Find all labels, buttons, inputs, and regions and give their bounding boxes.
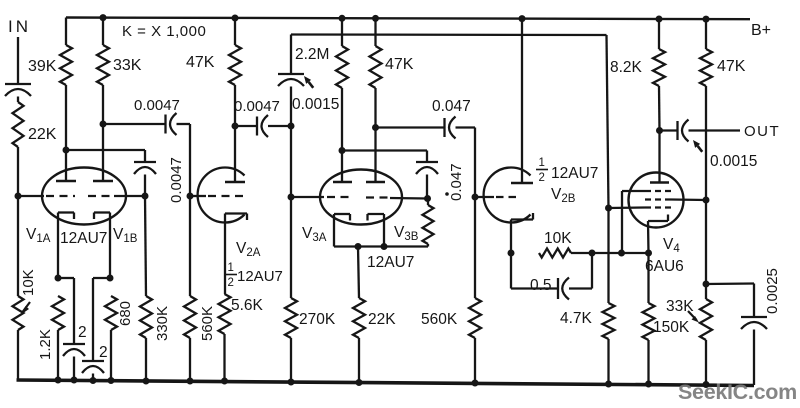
svg-text:47K: 47K [717, 58, 746, 75]
svg-text:1: 1 [539, 157, 545, 169]
svg-text:560K: 560K [199, 306, 216, 341]
svg-text:0.0047: 0.0047 [234, 98, 280, 115]
svg-text:V2A: V2A [236, 240, 261, 259]
svg-text:2.2M: 2.2M [295, 46, 329, 63]
svg-text:12AU7: 12AU7 [237, 268, 283, 285]
svg-text:22K: 22K [28, 126, 57, 143]
svg-text:10K: 10K [544, 230, 572, 247]
svg-text:5.6K: 5.6K [231, 297, 264, 314]
svg-text:K = X 1,000: K = X 1,000 [122, 23, 206, 40]
svg-text:47K: 47K [186, 54, 215, 71]
svg-text:10K: 10K [20, 269, 37, 296]
svg-text:V4: V4 [663, 236, 680, 255]
svg-text:12AU7: 12AU7 [60, 230, 107, 247]
svg-text:1: 1 [228, 262, 234, 274]
svg-text:6AU6: 6AU6 [645, 258, 684, 275]
svg-text:OUT: OUT [744, 123, 780, 140]
svg-text:47K: 47K [385, 56, 414, 73]
svg-text:2: 2 [78, 324, 87, 341]
svg-text:2: 2 [228, 277, 234, 289]
svg-text:0.047: 0.047 [448, 163, 465, 201]
svg-text:12AU7: 12AU7 [367, 254, 414, 271]
svg-text:V3A: V3A [302, 225, 327, 244]
svg-text:V1B: V1B [113, 226, 138, 245]
svg-text:V3B: V3B [394, 224, 419, 243]
svg-text:150K: 150K [653, 319, 690, 336]
svg-text:0.0047: 0.0047 [168, 157, 185, 203]
svg-text:0.5: 0.5 [530, 277, 552, 294]
svg-text:V1A: V1A [26, 226, 51, 245]
svg-text:0.047: 0.047 [432, 98, 471, 115]
svg-text:IN: IN [8, 17, 31, 36]
svg-text:560K: 560K [421, 311, 458, 328]
svg-text:0.0025: 0.0025 [764, 268, 781, 314]
svg-text:12AU7: 12AU7 [551, 165, 598, 182]
svg-text:0.0047: 0.0047 [134, 97, 180, 114]
svg-text:0.0015: 0.0015 [710, 153, 757, 170]
svg-text:B+: B+ [751, 22, 771, 39]
svg-text:33K: 33K [666, 298, 694, 315]
svg-text:4.7K: 4.7K [560, 310, 593, 327]
svg-text:1.2K: 1.2K [37, 329, 54, 360]
svg-text:V2B: V2B [551, 186, 576, 205]
svg-text:330K: 330K [154, 306, 171, 341]
svg-text:33K: 33K [113, 57, 142, 74]
svg-text:680: 680 [117, 301, 134, 326]
svg-text:22K: 22K [368, 311, 396, 328]
svg-text:SeekIC.com: SeekIC.com [678, 380, 797, 404]
svg-text:0.0015: 0.0015 [292, 96, 339, 113]
svg-text:2: 2 [99, 344, 108, 361]
svg-text:270K: 270K [299, 311, 336, 328]
svg-text:39K: 39K [28, 58, 57, 75]
svg-text:8.2K: 8.2K [610, 59, 643, 76]
svg-text:2: 2 [539, 172, 545, 184]
